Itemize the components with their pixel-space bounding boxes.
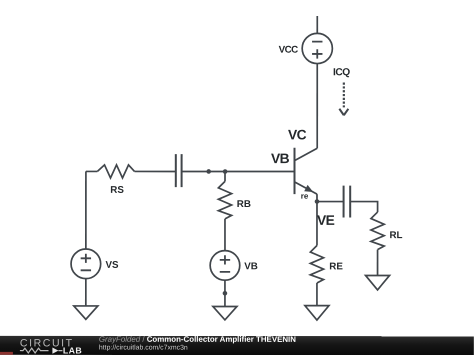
svg-text:re: re: [301, 192, 309, 201]
svg-text:VS: VS: [105, 260, 119, 271]
svg-text:http://circuitlab.com/c7xmc3n: http://circuitlab.com/c7xmc3n: [99, 345, 188, 352]
svg-text:GrayFolded / Common-Collector: GrayFolded / Common-Collector Amplifier …: [99, 335, 296, 344]
svg-text:ICQ: ICQ: [333, 67, 350, 78]
svg-text:VE: VE: [317, 213, 335, 228]
svg-text:VCC: VCC: [279, 45, 299, 56]
svg-text:RB: RB: [237, 199, 251, 210]
svg-text:LAB: LAB: [63, 346, 82, 355]
svg-text:RE: RE: [329, 261, 343, 272]
svg-text:VB: VB: [271, 151, 290, 166]
svg-text:RL: RL: [389, 230, 402, 241]
svg-text:RS: RS: [110, 185, 124, 196]
svg-text:VB: VB: [244, 261, 258, 272]
svg-text:VC: VC: [288, 127, 307, 142]
